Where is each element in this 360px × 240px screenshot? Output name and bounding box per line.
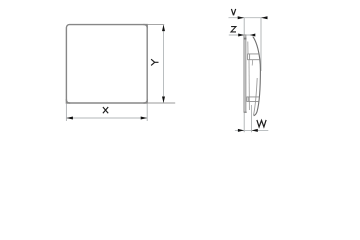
top clip hook — [251, 60, 254, 66]
backplate bottom foot — [244, 112, 247, 113]
sharp corner patch bottom-right — [144, 99, 148, 103]
W arrow right (outside, pointing left) — [252, 129, 258, 132]
top clip divider — [249, 54, 251, 60]
Y arrow up — [162, 25, 165, 32]
sharp corner patch bottom-left — [66, 99, 70, 103]
connector stem between clips — [248, 60, 250, 110]
X right extension line — [146, 104, 148, 121]
backplate (wall plate) of side view — [244, 35, 246, 112]
W right extension line — [251, 105, 253, 132]
Z dimension line — [229, 34, 256, 36]
X arrow left — [66, 117, 73, 120]
V dimension line — [229, 17, 268, 19]
front panel square — [66, 25, 147, 103]
X left extension line — [65, 104, 67, 121]
V right extension line — [260, 18, 262, 71]
Y bottom extension line — [148, 102, 175, 104]
W arrow left (outside, pointing right) — [238, 129, 244, 132]
Y top extension line — [148, 24, 164, 26]
X arrow right — [141, 117, 148, 120]
sharp corner patch top-right — [144, 25, 148, 29]
V left extension line — [243, 18, 245, 36]
V arrow right (outside, pointing left) — [261, 16, 268, 19]
backplate top joint — [244, 38, 247, 40]
curved front panel outer profile — [253, 37, 261, 116]
V arrow left (outside, pointing right) — [238, 16, 245, 19]
label V — [231, 9, 235, 15]
Y dimension line — [163, 25, 165, 103]
label W — [257, 120, 266, 127]
ring edge above top clip — [247, 42, 249, 54]
curved front panel inner profile — [254, 78, 258, 115]
Z arrow left (outside, pointing right) — [238, 34, 244, 37]
W left extension line — [243, 113, 245, 132]
label Y — [151, 59, 158, 65]
W dimension line — [235, 129, 268, 131]
label Z — [231, 27, 236, 32]
bottom mounting clip — [247, 97, 259, 102]
X dimension line — [66, 117, 147, 119]
label X — [103, 107, 108, 113]
Z arrow right (outside, pointing left) — [250, 34, 256, 37]
Y arrow down — [162, 97, 165, 104]
top mounting clip — [248, 54, 260, 60]
bottom clip divider — [248, 97, 250, 102]
